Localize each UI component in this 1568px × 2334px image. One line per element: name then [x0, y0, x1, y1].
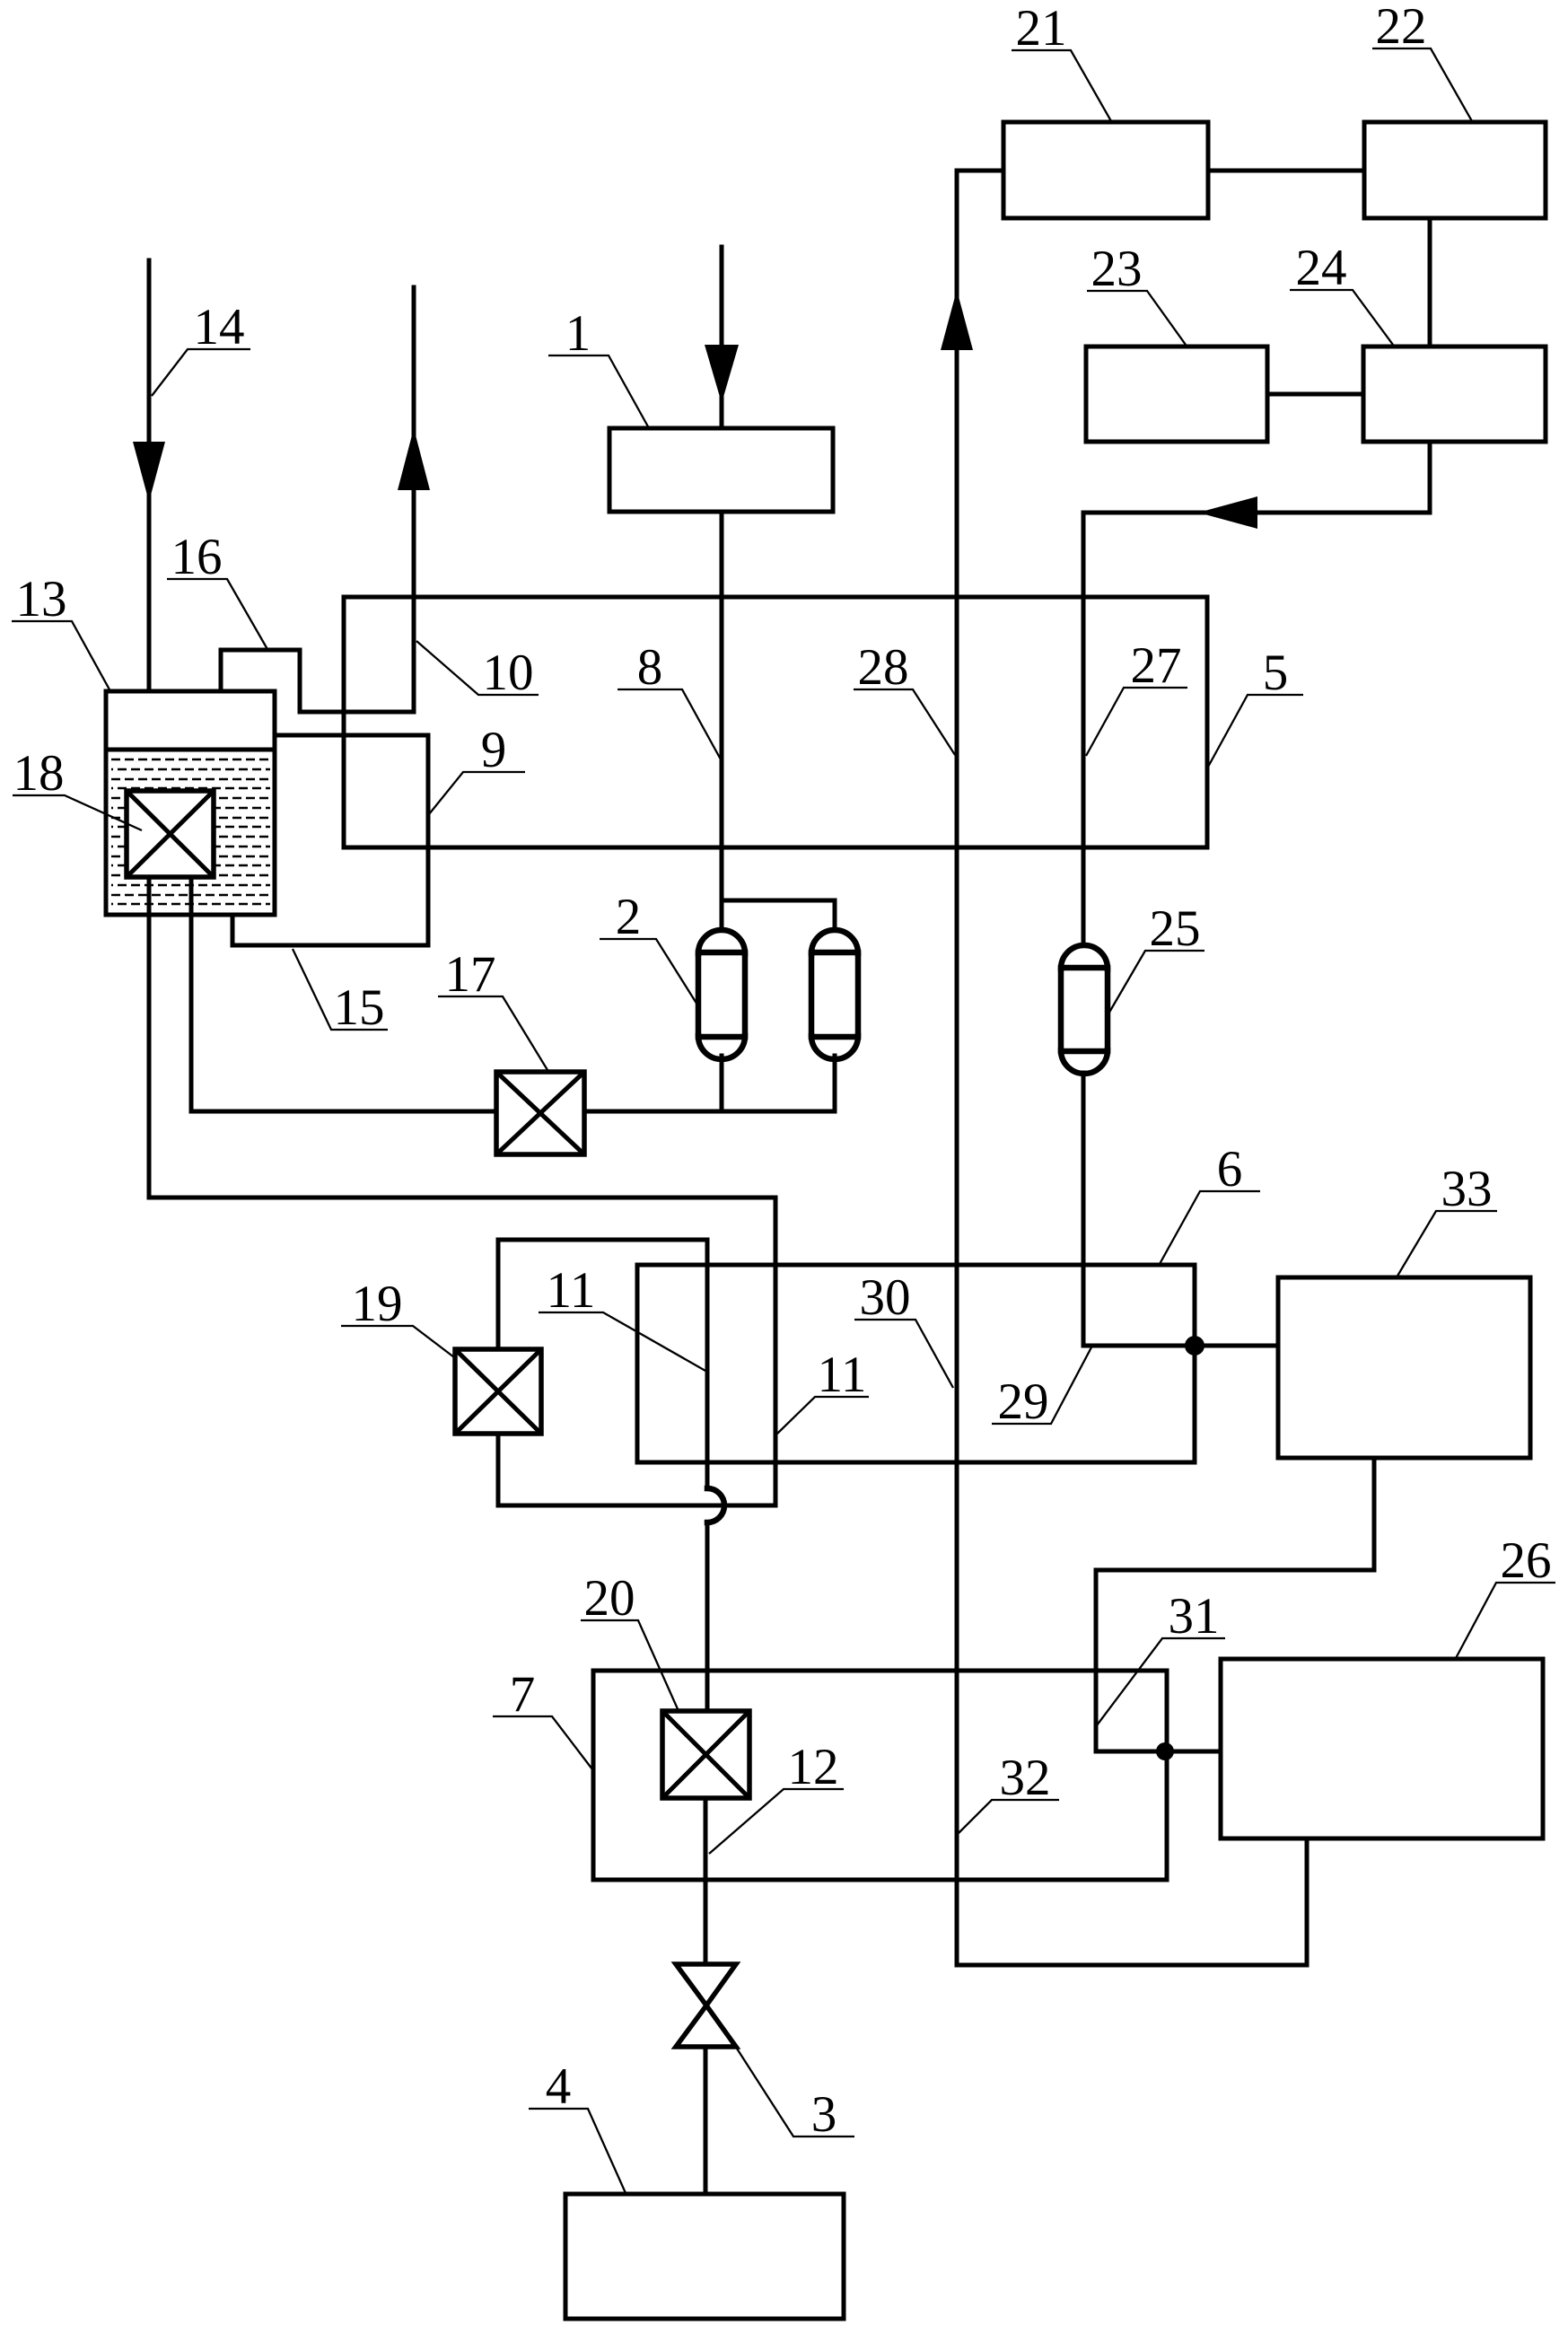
svg-text:27: 27	[1131, 637, 1182, 694]
svg-text:11: 11	[547, 1262, 596, 1319]
wire capsule branch top	[722, 900, 835, 930]
svg-text:32: 32	[1000, 1750, 1051, 1806]
svg-text:19: 19	[352, 1276, 403, 1332]
wire 22-24	[1428, 218, 1432, 347]
svg-text:11: 11	[818, 1347, 867, 1403]
pipe 11 loop lower	[149, 1198, 775, 1505]
valve 3 (bowtie)	[676, 1964, 736, 2047]
capsule 2 right	[811, 930, 858, 1059]
svg-text:3: 3	[811, 2086, 837, 2143]
box 26	[1221, 1659, 1543, 1838]
pipe from 18 left	[147, 877, 152, 1198]
electric heater 18 (box with X)	[127, 791, 214, 877]
svg-text:4: 4	[546, 2058, 572, 2115]
box 6 heat exchanger	[637, 1265, 1195, 1462]
wire box6 to box33	[1195, 1344, 1278, 1348]
wire inlet to box 1	[720, 247, 724, 428]
box 23	[1086, 347, 1267, 442]
svg-text:29: 29	[998, 1373, 1049, 1430]
box 33	[1278, 1277, 1530, 1458]
svg-text:25: 25	[1150, 900, 1201, 957]
pipe 8	[720, 512, 724, 900]
wire valve19 bottom	[496, 1434, 501, 1505]
pipe 29	[1083, 1073, 1195, 1346]
svg-text:20: 20	[584, 1570, 635, 1627]
arrow on wire 14 (down)	[133, 442, 165, 502]
svg-text:18: 18	[13, 745, 65, 802]
wire feedback to 27	[1083, 511, 1430, 515]
pipe from 18 right	[189, 877, 194, 1111]
pipe 27 vertical	[1082, 513, 1086, 945]
arrow on inlet 1 (down)	[705, 345, 739, 403]
box 1	[609, 428, 833, 512]
arrowheads	[133, 290, 1257, 529]
svg-text:22: 22	[1376, 0, 1427, 55]
box 7	[593, 1671, 1167, 1880]
capsule 25	[1061, 945, 1108, 1074]
wire y1238 manifold	[584, 1110, 835, 1114]
valve 19 (box with X)	[455, 1349, 541, 1434]
junction node on box7 edge	[1156, 1742, 1174, 1760]
pipe 16 step	[221, 650, 414, 712]
wire hop crossing	[707, 1488, 724, 1522]
valve 17 (box with X)	[496, 1072, 584, 1154]
svg-text:24: 24	[1296, 240, 1347, 296]
svg-text:1: 1	[565, 305, 591, 362]
wire 24 down	[1428, 442, 1432, 513]
wire valve19 top	[498, 1240, 707, 1349]
svg-text:9: 9	[481, 722, 507, 778]
svg-text:16: 16	[171, 529, 223, 585]
svg-text:26: 26	[1501, 1532, 1552, 1589]
svg-text:7: 7	[510, 1666, 536, 1723]
vessel 13	[106, 691, 275, 915]
svg-text:14: 14	[194, 299, 245, 355]
svg-text:33: 33	[1441, 1161, 1493, 1217]
svg-text:21: 21	[1016, 0, 1067, 57]
pipe 9	[232, 735, 428, 945]
box 22	[1364, 122, 1546, 218]
wire 23-24	[1267, 392, 1363, 397]
wire 14 inlet	[147, 260, 152, 691]
svg-text:8: 8	[637, 639, 663, 696]
svg-text:5: 5	[1263, 645, 1289, 701]
arrow on pipe 10 (up)	[398, 428, 430, 490]
box 5 heat exchanger	[344, 597, 1207, 847]
wire valve3 to box4	[704, 2047, 708, 2194]
svg-text:15: 15	[334, 979, 385, 1036]
svg-text:12: 12	[788, 1739, 839, 1795]
box 21	[1003, 122, 1208, 218]
svg-text:28: 28	[858, 639, 909, 696]
pipe 11 vertical lower	[705, 1522, 710, 1711]
wire 21-22	[1208, 169, 1364, 173]
box 24	[1363, 347, 1546, 442]
pipe 28 main vertical	[957, 171, 1307, 1965]
box 4	[565, 2194, 844, 2319]
svg-text:17: 17	[445, 946, 496, 1003]
liquid surface	[108, 748, 273, 752]
svg-text:6: 6	[1217, 1141, 1243, 1198]
svg-text:30: 30	[860, 1269, 911, 1326]
arrow on pipe 28 (up)	[941, 290, 973, 350]
capsule 2 left	[698, 930, 745, 1059]
pipe 10 riser	[412, 287, 416, 712]
svg-text:2: 2	[616, 889, 642, 945]
svg-text:31: 31	[1169, 1588, 1220, 1645]
pipe 11 vertical upper	[705, 1240, 710, 1488]
arrow on feedback line (left)	[1198, 496, 1257, 529]
junction node on box6 edge	[1185, 1336, 1204, 1356]
liquid hatch in vessel 13	[111, 759, 270, 904]
pipe 12	[704, 1798, 708, 1964]
valve 20 (box with X)	[662, 1711, 749, 1798]
pipe 31	[1096, 1458, 1374, 1751]
svg-text:10: 10	[483, 645, 534, 701]
svg-text:13: 13	[16, 571, 67, 627]
svg-text:23: 23	[1091, 241, 1143, 297]
wire capsule bottoms	[720, 1056, 724, 1111]
